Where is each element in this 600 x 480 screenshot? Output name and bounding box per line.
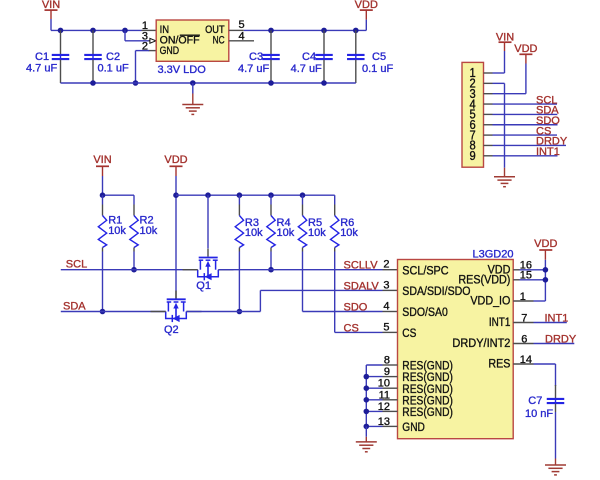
svg-text:13: 13 xyxy=(378,416,390,428)
svg-text:5: 5 xyxy=(239,19,245,31)
svg-text:VIN: VIN xyxy=(42,0,60,11)
node junction R3/SDALV xyxy=(237,309,243,315)
pin stub 12 (IC RES(GND)) xyxy=(383,410,398,412)
svg-text:C1: C1 xyxy=(35,51,49,63)
capacitor C3 4.7 uF xyxy=(270,30,272,54)
resistor R6 10k xyxy=(334,195,336,204)
wire CS R6 to IC pin 5 xyxy=(335,331,383,333)
node junction ground rail/ground symbol xyxy=(190,80,196,86)
node junction C4/ground rail xyxy=(321,80,327,86)
svg-text:2: 2 xyxy=(142,40,148,52)
pin stub 15 (IC RES(VDD)) xyxy=(513,279,519,281)
wire VIN rail to LDO pin 1 (IN) xyxy=(51,29,142,31)
svg-text:14: 14 xyxy=(520,354,532,366)
svg-text:CS: CS xyxy=(402,326,416,340)
pin stub 5 (connector) xyxy=(484,113,493,115)
node junction C2/ground rail xyxy=(90,80,96,86)
node junction VIN rail/R1 xyxy=(100,192,106,198)
svg-text:SDO/SA0: SDO/SA0 xyxy=(402,305,448,319)
node junction ground chain xyxy=(364,409,370,415)
svg-text:SCLLV: SCLLV xyxy=(344,259,379,271)
wire ground chain vertical xyxy=(365,365,367,426)
pin stub 7 (connector) xyxy=(484,134,493,136)
wire DRDY (IC pin 6) xyxy=(513,343,533,345)
svg-text:3.3V LDO: 3.3V LDO xyxy=(158,64,207,76)
ground (IC GND pins) xyxy=(356,441,377,443)
node junction VDD/C3 xyxy=(268,28,274,34)
wire SCL to Q1 source xyxy=(61,269,198,271)
resistor R4 10k xyxy=(270,195,272,204)
wire CS (connector pin 7) xyxy=(493,134,558,136)
svg-text:INT1: INT1 xyxy=(489,315,511,329)
pin stub 9 (IC RES(GND)) xyxy=(383,376,398,378)
svg-text:10k: 10k xyxy=(340,227,358,239)
wire SDO R5 to IC pin 4 xyxy=(303,311,383,313)
svg-text:10: 10 xyxy=(378,378,390,390)
node junction ground chain xyxy=(364,385,370,391)
wire ground bottom rail xyxy=(61,82,356,84)
svg-text:4.7 uF: 4.7 uF xyxy=(291,63,322,75)
svg-text:INT1: INT1 xyxy=(545,312,569,324)
capacitor C5 0.1 uF xyxy=(355,30,357,54)
node junction VIN/C2 xyxy=(90,28,96,34)
wire LDO pin 2 GND to ground rail xyxy=(149,50,157,52)
svg-text:7: 7 xyxy=(521,312,527,324)
wire R1 to SDA xyxy=(102,252,104,312)
svg-text:VDD: VDD xyxy=(534,238,557,250)
svg-text:10k: 10k xyxy=(308,227,326,239)
svg-text:SDALV: SDALV xyxy=(344,280,380,292)
wire SDA (connector pin 5) xyxy=(493,113,558,115)
node junction VDD/C5 xyxy=(353,28,359,34)
node junction VDD/pin16 xyxy=(543,267,549,273)
svg-text:VDD: VDD xyxy=(514,43,537,55)
node junction R2/SCL xyxy=(131,267,137,273)
svg-text:DRDY/INT2: DRDY/INT2 xyxy=(452,336,510,350)
svg-text:SDO: SDO xyxy=(344,301,368,313)
svg-text:10 nF: 10 nF xyxy=(525,408,553,420)
svg-text:VDD_IO: VDD_IO xyxy=(470,294,510,308)
ground (top section) xyxy=(192,83,194,94)
svg-text:0.1 uF: 0.1 uF xyxy=(362,63,393,75)
svg-text:SDA: SDA xyxy=(63,301,86,313)
capacitor C1 4.7 uF xyxy=(60,30,62,54)
wire LDO OUT rail (VDD) xyxy=(229,29,244,31)
node junction R4/SCLLV xyxy=(268,267,274,273)
wire VDD drop to Q2 gate xyxy=(175,176,177,291)
svg-text:GND: GND xyxy=(402,420,425,434)
svg-text:12: 12 xyxy=(378,401,390,413)
svg-text:Q2: Q2 xyxy=(164,324,179,336)
svg-text:C3: C3 xyxy=(249,51,263,63)
pin stub 13 (IC GND) xyxy=(383,425,398,427)
svg-text:SCL/SPC: SCL/SPC xyxy=(402,263,448,277)
svg-text:5: 5 xyxy=(383,322,389,334)
svg-text:4.7 uF: 4.7 uF xyxy=(238,63,269,75)
svg-text:8: 8 xyxy=(384,355,390,367)
svg-text:15: 15 xyxy=(520,270,532,282)
svg-text:Q1: Q1 xyxy=(196,280,211,292)
wire SCL (connector pin 4) xyxy=(493,103,558,105)
svg-text:1: 1 xyxy=(520,291,526,303)
pin stub 10 (IC RES(GND)) xyxy=(383,387,398,389)
svg-text:VDD: VDD xyxy=(355,0,378,11)
svg-text:0.1 uF: 0.1 uF xyxy=(98,63,129,75)
svg-text:RES(VDD): RES(VDD) xyxy=(458,272,510,286)
connector J1 9-pin header xyxy=(462,62,484,167)
wire VIN pull-up rail xyxy=(103,194,135,196)
power net VDD (connector pin 3) xyxy=(493,93,526,95)
pin stub 4 NC unconnected xyxy=(229,40,254,42)
wire INT1 (IC pin 7) xyxy=(513,322,533,324)
pin stub 2 (connector) xyxy=(484,82,493,84)
node junction ground chain xyxy=(364,374,370,380)
svg-text:RES: RES xyxy=(488,357,510,371)
node junction C3/ground rail xyxy=(268,80,274,86)
svg-text:GND: GND xyxy=(160,45,180,57)
wire RES (IC pin 14) to C7 xyxy=(513,363,533,365)
node junction R1/SDA xyxy=(100,309,106,315)
power net VIN (connector pin 1) xyxy=(493,72,505,74)
node junction GND/bottom rail xyxy=(133,80,139,86)
svg-text:L3GD20: L3GD20 xyxy=(473,249,514,261)
pin stub 11 (IC RES(GND)) xyxy=(383,399,398,401)
resistor R1 10k xyxy=(102,195,104,204)
svg-text:C4: C4 xyxy=(302,51,316,63)
wire SDA to Q2 source xyxy=(61,311,166,313)
pin stub 1 (connector) xyxy=(484,72,493,74)
svg-text:CS: CS xyxy=(344,322,359,334)
svg-text:C2: C2 xyxy=(106,51,120,63)
node junction VIN/ON-OFF branch xyxy=(122,28,128,34)
svg-text:9: 9 xyxy=(384,366,390,378)
svg-text:4.7 uF: 4.7 uF xyxy=(26,63,57,75)
svg-text:C5: C5 xyxy=(372,51,386,63)
resistor R2 10k xyxy=(133,195,135,204)
svg-text:VIN: VIN xyxy=(93,154,111,166)
pin stub 16 (IC VDD) xyxy=(513,269,519,271)
pin stub 6 (connector) xyxy=(484,124,493,126)
node junction VDD rail/R3 xyxy=(237,192,243,198)
svg-text:10k: 10k xyxy=(245,227,263,239)
pin stub 4 (connector) xyxy=(484,103,493,105)
wire VDD to pin 1 VDD_IO xyxy=(534,300,546,302)
wire connector pin 2 to ground xyxy=(493,82,505,84)
wire Q1 gate to VDD rail xyxy=(207,195,209,248)
svg-text:6: 6 xyxy=(521,333,527,345)
resistor R5 10k xyxy=(302,195,304,204)
pin stub 9 (connector) xyxy=(484,155,493,157)
svg-text:DRDY: DRDY xyxy=(545,333,577,345)
svg-text:10k: 10k xyxy=(140,225,158,237)
svg-text:4: 4 xyxy=(383,300,389,312)
node junction VDD rail/R4 xyxy=(268,192,274,198)
svg-text:3: 3 xyxy=(383,280,389,292)
ground (C7) xyxy=(545,464,566,466)
wire VDD pull-up rail xyxy=(176,194,335,196)
regulator U1 3.3V LDO xyxy=(156,20,229,61)
wire VIN to LDO pin 3 ON/OFF with input arrow xyxy=(124,30,126,40)
node junction VIN/C1 xyxy=(58,28,64,34)
node junction ground chain xyxy=(364,424,370,430)
node junction VDD rail/drop xyxy=(173,192,179,198)
svg-text:NC: NC xyxy=(213,35,225,47)
svg-text:INT1: INT1 xyxy=(536,146,560,158)
wire DRDY (connector pin 8) xyxy=(493,144,567,146)
pin stub 8 (connector) xyxy=(484,144,493,146)
wire SCLLV Q1 drain to IC pin 2 xyxy=(218,269,382,271)
svg-text:2: 2 xyxy=(383,259,389,271)
wire SDALV Q2 drain to IC pin 3 xyxy=(186,311,260,313)
wire INT1 (connector pin 9) xyxy=(493,155,558,157)
node junction ground chain xyxy=(364,397,370,403)
capacitor C2 0.1 uF xyxy=(92,30,94,54)
capacitor C4 4.7 uF xyxy=(323,30,325,54)
transistor Q2 (level shifter MOSFET) xyxy=(175,291,177,299)
IC U2 L3GD20 gyroscope xyxy=(398,260,514,439)
transistor Q1 (level shifter MOSFET) xyxy=(207,249,209,257)
pin stub 3 (connector) xyxy=(484,93,493,95)
wire SDO (connector pin 6) xyxy=(493,124,558,126)
svg-text:SCL: SCL xyxy=(66,258,87,270)
pin stub 8 (IC RES(GND)) xyxy=(383,364,398,366)
svg-text:9: 9 xyxy=(470,149,476,163)
wire C7 to ground xyxy=(555,404,557,412)
capacitor C7 10 nF xyxy=(555,385,557,398)
node junction VDD rail/R5 xyxy=(300,192,306,198)
node junction VDD/pin15 xyxy=(543,277,549,283)
wire R2 to SCL xyxy=(133,252,135,270)
svg-text:10k: 10k xyxy=(277,227,295,239)
svg-text:11: 11 xyxy=(379,389,390,401)
svg-text:10k: 10k xyxy=(108,225,126,237)
resistor R3 10k xyxy=(238,195,240,204)
node junction VDD rail/Q1 gate xyxy=(205,192,211,198)
node junction VDD/C4 xyxy=(321,28,327,34)
ground (connector) xyxy=(494,176,515,178)
svg-text:C7: C7 xyxy=(528,395,542,407)
svg-text:VDD: VDD xyxy=(164,154,187,166)
svg-text:RES(GND): RES(GND) xyxy=(402,405,453,419)
